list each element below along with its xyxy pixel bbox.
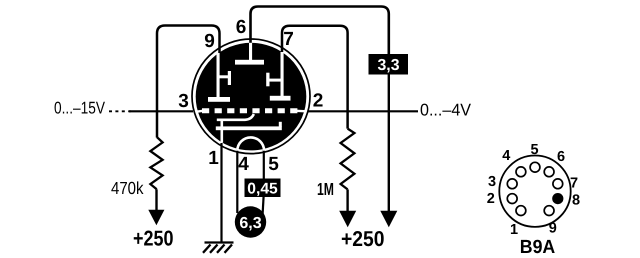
- svg-text:5: 5: [531, 142, 539, 158]
- electrode pin 7 plate: [270, 96, 291, 101]
- resistor 1M: [341, 129, 355, 190]
- svg-text:7: 7: [283, 29, 294, 50]
- electrode pin 7 tick: [270, 79, 283, 82]
- socket pin 7: [553, 179, 563, 189]
- svg-text:4: 4: [502, 148, 510, 164]
- svg-text:+250: +250: [341, 227, 385, 251]
- svg-text:6: 6: [236, 17, 247, 38]
- wire right rail below 3,3 box: [388, 73, 390, 212]
- svg-text:B9A: B9A: [520, 237, 556, 258]
- grid right connector: [296, 110, 307, 113]
- svg-text:470k: 470k: [111, 178, 144, 198]
- svg-text:1M: 1M: [317, 179, 334, 199]
- socket B9A outline: [499, 156, 570, 227]
- anode lead pin 6 (internal): [249, 43, 252, 61]
- resistor 470k: [150, 137, 162, 189]
- svg-text:0...–4V: 0...–4V: [420, 101, 472, 120]
- tube U1 envelope: [192, 39, 310, 154]
- svg-text:6: 6: [557, 149, 565, 165]
- svg-text:3: 3: [488, 174, 496, 190]
- svg-text:5: 5: [268, 154, 279, 175]
- svg-text:7: 7: [570, 175, 578, 191]
- socket pin 5: [530, 162, 540, 172]
- cathode tick: [279, 122, 282, 127]
- grid (dashed, pins 3/2): [202, 108, 298, 113]
- svg-text:8: 8: [572, 192, 580, 208]
- wire pin 4 to heater supply: [236, 149, 238, 213]
- wire 0,45 box to heater supply: [263, 197, 264, 215]
- cathode lead to pin 1 (internal): [221, 120, 224, 143]
- svg-text:+250: +250: [133, 227, 174, 251]
- wire pin 9 loop to 470k: [157, 26, 220, 138]
- heater arc: [237, 137, 264, 150]
- socket pin 8 (spigot mark): [552, 193, 563, 204]
- svg-text:2: 2: [487, 191, 495, 207]
- svg-text:0...–15V: 0...–15V: [54, 99, 106, 118]
- svg-text:3,3: 3,3: [378, 57, 400, 74]
- arrow +250 right-rail: [380, 211, 397, 228]
- electrode pin 9 tick: [218, 75, 229, 78]
- wire pin 5 to 0,45 box: [263, 149, 265, 180]
- wire 470k to +250 arrow: [155, 189, 157, 211]
- arrow +250 under 1M: [339, 211, 356, 228]
- svg-text:1: 1: [510, 222, 518, 238]
- arrow +250 left: [148, 210, 164, 225]
- svg-text:1: 1: [208, 148, 219, 169]
- wire pin 6 loop to right rail: [251, 7, 389, 56]
- heater supply 6,3: [235, 206, 266, 237]
- svg-text:2: 2: [313, 91, 324, 112]
- socket pin 3: [507, 179, 517, 189]
- socket pin 1: [516, 206, 526, 216]
- wire pin 1 to ground: [220, 143, 222, 242]
- svg-text:4: 4: [238, 154, 249, 175]
- svg-text:9: 9: [549, 221, 557, 237]
- svg-text:6,3: 6,3: [239, 215, 261, 232]
- anode plate (pin 6): [235, 60, 264, 65]
- electrode pin 7 rod: [281, 52, 284, 97]
- svg-text:3: 3: [178, 91, 189, 112]
- electrode pin 9 plate: [208, 97, 230, 102]
- grid left connector: [196, 111, 204, 112]
- tube U1 body: [196, 43, 307, 151]
- node -15V leader dashes: [109, 110, 131, 112]
- current box 3,3: [369, 54, 409, 75]
- wire pin 7 loop to 1M: [282, 26, 348, 129]
- current box 0,45: [245, 179, 281, 198]
- socket pin 9: [544, 206, 554, 216]
- ground: [203, 243, 234, 253]
- socket pin 2: [507, 194, 517, 204]
- socket pin 6: [544, 167, 554, 177]
- wire main right (pin 2 to -4V): [308, 110, 418, 112]
- wire main left (grid wire to pin 3): [129, 110, 193, 112]
- svg-text:9: 9: [204, 31, 215, 52]
- cathode bar: [216, 126, 282, 130]
- svg-text:0,45: 0,45: [247, 180, 278, 197]
- diode anode (internal, curves to grid): [217, 114, 254, 120]
- electrode pin 9 rod: [217, 53, 220, 98]
- wire 1M to +250 arrow: [346, 189, 348, 211]
- socket pin 4: [516, 167, 526, 177]
